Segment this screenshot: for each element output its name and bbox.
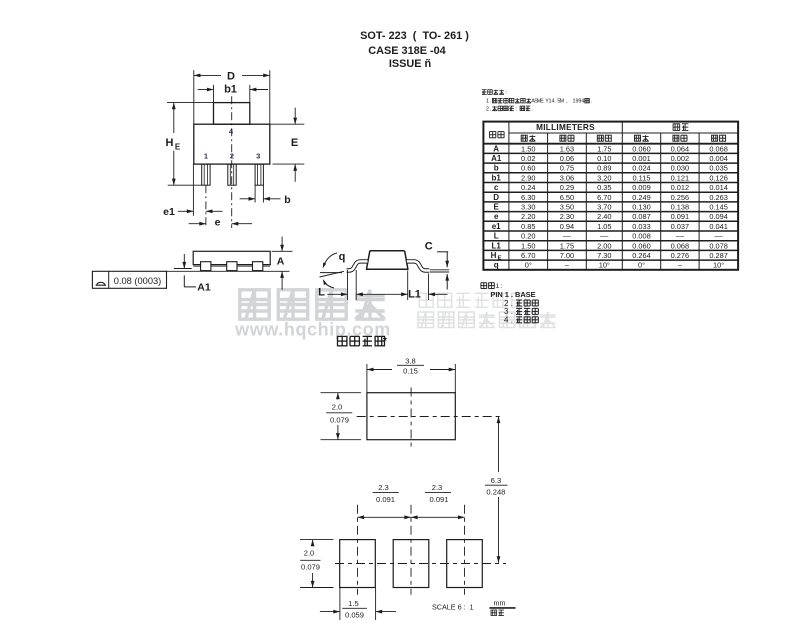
front view tab (pin 4) xyxy=(214,103,250,125)
svg-text:C: C xyxy=(425,241,433,253)
svg-text:.: . xyxy=(490,99,492,105)
svg-text:L: L xyxy=(318,287,325,299)
svg-text:e1: e1 xyxy=(163,206,175,218)
table row q xyxy=(494,261,724,270)
pin 4 name xyxy=(504,316,538,325)
svg-text:E: E xyxy=(494,202,500,211)
svg-text:1.63: 1.63 xyxy=(560,144,574,153)
table row c xyxy=(494,183,728,192)
svg-text:0.014: 0.014 xyxy=(709,183,728,192)
svg-text:b1: b1 xyxy=(224,84,237,96)
gullwing left lead xyxy=(347,261,368,270)
svg-text:0.091: 0.091 xyxy=(376,495,395,504)
svg-text:0.001: 0.001 xyxy=(632,154,651,163)
svg-text:2.3: 2.3 xyxy=(432,483,443,492)
dimension 3.8/0.15 xyxy=(367,357,455,393)
svg-text:0.033: 0.033 xyxy=(632,222,651,231)
svg-text:2.30: 2.30 xyxy=(560,212,574,221)
dimension 2.3/0.091 left xyxy=(358,483,412,519)
dimension 2.3/0.091 right xyxy=(411,483,465,519)
svg-text:1.50: 1.50 xyxy=(521,241,535,250)
front view lead 2 xyxy=(228,164,236,185)
svg-text:0.94: 0.94 xyxy=(560,222,574,231)
pin 2 name xyxy=(504,299,538,308)
svg-text:SOT- 223 ( TO- 261 ): SOT- 223 ( TO- 261 ) xyxy=(360,30,469,42)
dimension 2.0/0.079 top pad xyxy=(321,393,362,440)
svg-text:0.059: 0.059 xyxy=(345,610,364,619)
svg-text:3.70: 3.70 xyxy=(597,202,611,211)
svg-text:0.138: 0.138 xyxy=(671,202,690,211)
svg-text:2.90: 2.90 xyxy=(521,173,535,182)
svg-text:0.008: 0.008 xyxy=(632,232,651,241)
table row D xyxy=(493,193,728,202)
table row L xyxy=(494,232,724,241)
svg-text:0.145: 0.145 xyxy=(709,202,728,211)
svg-text:1.50: 1.50 xyxy=(521,144,535,153)
solder footprint heading xyxy=(338,336,388,347)
pin number 1 xyxy=(204,151,208,160)
svg-text:7.30: 7.30 xyxy=(597,251,611,260)
front view lead 1 xyxy=(202,164,210,185)
svg-text:0.060: 0.060 xyxy=(632,241,651,250)
svg-text:7.00: 7.00 xyxy=(560,251,574,260)
side edge view lead 1 xyxy=(201,262,211,271)
svg-text:ISSUE ñ: ISSUE ñ xyxy=(389,58,431,70)
svg-text:2.00: 2.00 xyxy=(597,241,611,250)
footprint pad 2 xyxy=(393,540,429,588)
svg-text:0.10: 0.10 xyxy=(597,154,611,163)
svg-text:0.263: 0.263 xyxy=(709,193,728,202)
lead1 centerline xyxy=(205,185,207,228)
dimension 6.3/0.248 xyxy=(485,417,508,563)
dimension L xyxy=(318,270,356,300)
svg-text:0.276: 0.276 xyxy=(671,251,690,260)
note 1 xyxy=(486,98,592,104)
dimension D xyxy=(194,70,270,124)
svg-text:mm: mm xyxy=(494,599,506,608)
svg-text:0.012: 0.012 xyxy=(671,183,690,192)
svg-text:0.20: 0.20 xyxy=(521,232,535,241)
watermark www.hqchip.com xyxy=(234,320,391,340)
svg-text:0.078: 0.078 xyxy=(709,241,728,250)
dimension 2.0/0.079 pads xyxy=(300,540,334,588)
svg-text:4: 4 xyxy=(551,99,554,105)
front view body outline xyxy=(194,124,270,164)
svg-text:0.02: 0.02 xyxy=(521,154,535,163)
svg-text:.: . xyxy=(591,99,593,105)
svg-text:0.24: 0.24 xyxy=(521,183,535,192)
svg-text:PIN 1 . BASE: PIN 1 . BASE xyxy=(490,290,535,299)
table row E xyxy=(494,202,728,211)
svg-text:10°: 10° xyxy=(713,261,724,270)
watermark right line1 xyxy=(419,293,525,307)
svg-text:0.035: 0.035 xyxy=(709,164,728,173)
body edge extension xyxy=(192,164,194,216)
svg-text:0.009: 0.009 xyxy=(632,183,651,192)
svg-text:L: L xyxy=(494,232,499,241)
svg-text:0.079: 0.079 xyxy=(330,416,349,425)
svg-text:3.8: 3.8 xyxy=(405,357,416,366)
svg-text:A1: A1 xyxy=(491,154,502,163)
svg-text:1: 1 xyxy=(204,151,208,160)
svg-text:4: 4 xyxy=(581,99,584,105)
svg-text:0.287: 0.287 xyxy=(709,251,728,260)
svg-text:.: . xyxy=(490,106,492,112)
footprint tab pad xyxy=(367,393,455,440)
pin style note xyxy=(481,283,502,290)
svg-text:6.70: 6.70 xyxy=(521,251,535,260)
footprint pads centerline horizontal xyxy=(335,563,506,565)
pin number 3 xyxy=(256,151,260,160)
svg-text:0.249: 0.249 xyxy=(632,193,651,202)
dimension L1 xyxy=(356,271,447,301)
svg-text:A: A xyxy=(493,144,499,153)
dimension A xyxy=(272,237,293,290)
svg-text:0.06: 0.06 xyxy=(560,154,574,163)
svg-text:0.15: 0.15 xyxy=(403,367,418,376)
svg-text:b1: b1 xyxy=(492,173,502,182)
note header xyxy=(482,90,507,96)
svg-text:L1: L1 xyxy=(408,289,421,301)
table row L1 xyxy=(492,241,728,250)
svg-text:––: –– xyxy=(600,232,609,241)
table header millimeters xyxy=(536,123,595,132)
svg-text:SCALE 6 : 1: SCALE 6 : 1 xyxy=(432,602,474,611)
watermark right line2 xyxy=(418,312,556,328)
table row e xyxy=(494,212,728,221)
svg-text:3.06: 3.06 xyxy=(560,173,574,182)
svg-text:––: –– xyxy=(714,232,723,241)
svg-text:D: D xyxy=(227,71,235,83)
svg-text:1.75: 1.75 xyxy=(597,144,611,153)
svg-text:0.115: 0.115 xyxy=(633,173,651,182)
table row e1 xyxy=(492,222,728,231)
table header symbol xyxy=(490,132,505,138)
svg-text:2.0: 2.0 xyxy=(332,403,343,412)
svg-text:.: . xyxy=(532,106,534,112)
svg-text:H: H xyxy=(166,137,174,149)
dimension q angle xyxy=(320,251,346,288)
dimension HE xyxy=(166,103,214,186)
svg-text:––: –– xyxy=(676,232,685,241)
svg-text:q: q xyxy=(339,251,346,263)
svg-text:A1: A1 xyxy=(197,282,211,294)
svg-text:e: e xyxy=(215,217,221,229)
svg-text:D: D xyxy=(493,193,499,202)
svg-text:L1: L1 xyxy=(492,241,502,250)
svg-text:0.08 (0003): 0.08 (0003) xyxy=(114,276,162,286)
svg-text:0.030: 0.030 xyxy=(671,164,690,173)
svg-text:0.248: 0.248 xyxy=(486,488,505,497)
pin 3 name xyxy=(504,307,538,316)
svg-text:1.75: 1.75 xyxy=(560,241,574,250)
table row HE xyxy=(491,251,728,262)
dimension 1.5/0.059 xyxy=(320,588,396,621)
footprint pad 3 xyxy=(447,540,483,588)
svg-text:1: 1 xyxy=(486,99,489,105)
svg-text:E: E xyxy=(540,99,544,105)
svg-text:0.130: 0.130 xyxy=(632,202,651,211)
svg-text:2.3: 2.3 xyxy=(378,483,389,492)
svg-text:0.064: 0.064 xyxy=(671,144,690,153)
svg-text:0.75: 0.75 xyxy=(560,164,574,173)
side edge view body xyxy=(193,251,270,264)
svg-text:0.60: 0.60 xyxy=(521,164,535,173)
svg-text:0.264: 0.264 xyxy=(632,251,651,260)
svg-text:0.068: 0.068 xyxy=(671,241,690,250)
svg-text:0.256: 0.256 xyxy=(671,193,690,202)
table header inches xyxy=(673,124,688,131)
svg-text:3: 3 xyxy=(256,151,260,160)
svg-text:6.3: 6.3 xyxy=(491,476,502,485)
gullwing view body xyxy=(367,251,408,270)
svg-text:M: M xyxy=(560,99,565,105)
side edge view lead 3 xyxy=(253,262,263,271)
svg-text:e1: e1 xyxy=(492,222,501,231)
side edge view lead line xyxy=(193,265,270,267)
svg-text:6.30: 6.30 xyxy=(521,193,535,202)
svg-text:1.05: 1.05 xyxy=(597,222,611,231)
svg-text:0°: 0° xyxy=(638,261,645,270)
svg-text::: : xyxy=(515,106,517,112)
svg-text:0.041: 0.041 xyxy=(709,222,728,231)
svg-text:0.29: 0.29 xyxy=(560,183,574,192)
svg-text:0.091: 0.091 xyxy=(671,212,690,221)
pin 1 name xyxy=(490,290,535,299)
units mm/inch xyxy=(490,599,516,616)
svg-text:0.091: 0.091 xyxy=(429,495,448,504)
note 2 xyxy=(486,106,533,112)
svg-text:0.037: 0.037 xyxy=(671,222,690,231)
svg-text:4 .: 4 . xyxy=(504,316,513,325)
svg-text:0.126: 0.126 xyxy=(709,173,728,182)
svg-text:0.079: 0.079 xyxy=(301,563,320,572)
front view lead 3 xyxy=(255,164,263,185)
svg-text:b: b xyxy=(494,164,499,173)
svg-text:2.20: 2.20 xyxy=(521,212,535,221)
svg-text:0.060: 0.060 xyxy=(632,144,651,153)
table row A xyxy=(493,144,728,153)
svg-text:3.30: 3.30 xyxy=(521,202,535,211)
svg-text:*: * xyxy=(383,336,387,347)
svg-text:MILLIMETERS: MILLIMETERS xyxy=(536,123,595,132)
svg-text:10°: 10° xyxy=(599,261,610,270)
svg-text:E: E xyxy=(175,143,181,152)
svg-text:0.094: 0.094 xyxy=(709,212,728,221)
front view centerline xyxy=(231,96,233,228)
svg-text:CASE 318E -04: CASE 318E -04 xyxy=(368,45,445,57)
svg-text:2: 2 xyxy=(486,106,489,112)
svg-text:0.89: 0.89 xyxy=(597,164,611,173)
svg-text:b: b xyxy=(284,194,290,206)
footprint tab pad centerlines xyxy=(357,388,503,448)
title SOT-223 (TO-261) xyxy=(360,30,469,42)
seating plane line xyxy=(167,270,290,272)
dimension b1 xyxy=(198,84,268,103)
footprint pad centerlines vertical xyxy=(358,505,465,595)
svg-text:0.121: 0.121 xyxy=(671,173,690,182)
pin number 2 xyxy=(230,151,234,160)
svg-text:0°: 0° xyxy=(525,261,532,270)
table subheaders min nom max xyxy=(521,135,726,141)
svg-text:––: –– xyxy=(563,232,572,241)
dimension b xyxy=(240,185,291,206)
pin number 4 xyxy=(229,127,234,136)
svg-text:3.20: 3.20 xyxy=(597,173,611,182)
gullwing right lead xyxy=(407,261,429,270)
svg-text:E: E xyxy=(291,137,298,149)
svg-text:e: e xyxy=(494,212,499,221)
footprint pad 1 xyxy=(340,540,376,588)
svg-text:0.85: 0.85 xyxy=(521,222,535,231)
svg-text:A: A xyxy=(277,256,285,268)
dimension E xyxy=(270,108,305,182)
dimension A1 xyxy=(174,254,211,294)
table row b1 xyxy=(492,173,728,182)
svg-text:2.0: 2.0 xyxy=(304,549,315,558)
scale note xyxy=(432,602,474,611)
svg-text:0.002: 0.002 xyxy=(671,154,690,163)
svg-text:1.5: 1.5 xyxy=(348,599,359,608)
svg-text:q: q xyxy=(494,261,499,270)
svg-text:0.068: 0.068 xyxy=(709,144,728,153)
table row A1 xyxy=(491,154,728,163)
dimension e1 xyxy=(163,206,222,218)
svg-text:6.50: 6.50 xyxy=(560,193,574,202)
title CASE 318E-04 xyxy=(368,45,445,57)
watermark hqchip logo text xyxy=(240,290,385,319)
svg-text:0.004: 0.004 xyxy=(709,154,728,163)
svg-text:c: c xyxy=(494,183,499,192)
svg-text:0.35: 0.35 xyxy=(597,183,611,192)
svg-text:2.40: 2.40 xyxy=(597,212,611,221)
dimension C xyxy=(425,241,449,290)
svg-text:H: H xyxy=(491,251,497,260)
svg-text:0.024: 0.024 xyxy=(632,164,651,173)
table row b xyxy=(494,164,728,173)
svg-text:0.087: 0.087 xyxy=(632,212,651,221)
svg-text:6.70: 6.70 xyxy=(597,193,611,202)
svg-text:3.50: 3.50 xyxy=(560,202,574,211)
dimension e xyxy=(189,217,253,229)
flatness control frame 0.08 (0003) xyxy=(92,271,166,288)
title ISSUE N xyxy=(389,58,431,70)
side edge view lead 2 xyxy=(227,262,237,271)
dimension table frame xyxy=(483,122,738,270)
